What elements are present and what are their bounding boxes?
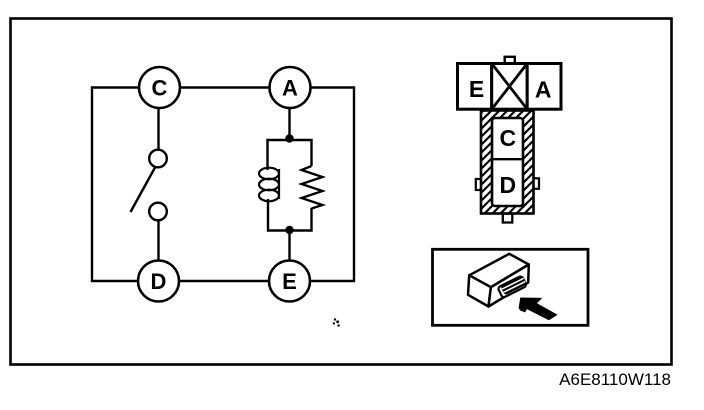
node junction bottom: [285, 226, 293, 234]
connector top tab: [505, 57, 515, 64]
relay body left face: [468, 275, 491, 306]
svg-text:E: E: [282, 269, 297, 294]
relay body top face: [469, 254, 529, 287]
pointer arrow: [519, 298, 558, 321]
pin box A: [527, 64, 561, 110]
connector left tab: [476, 179, 482, 190]
blocked cavity X: [492, 64, 528, 110]
connector cell divider: [492, 158, 523, 160]
node junction top: [285, 134, 293, 142]
resistor R: [302, 166, 323, 209]
svg-text:D: D: [499, 172, 516, 198]
connector bottom tab: [503, 214, 513, 223]
svg-text:E: E: [469, 76, 484, 102]
relay connector grille: [500, 275, 527, 295]
wire bottom D-E: [179, 280, 269, 282]
terminal D: [138, 261, 179, 302]
switch SW (relay contact): [131, 150, 167, 221]
terminal E: [269, 261, 310, 302]
svg-text:A6E8110W118: A6E8110W118: [559, 370, 671, 389]
svg-text:C: C: [152, 75, 168, 100]
wire switch to D: [157, 222, 159, 263]
svg-text:A: A: [282, 75, 298, 100]
wire node2 to E: [288, 231, 290, 263]
wire C to switch: [157, 106, 159, 150]
terminal A: [270, 67, 311, 108]
svg-text:D: D: [151, 269, 167, 294]
svg-text:A: A: [535, 76, 552, 102]
wire left rail C-D loop: [92, 88, 140, 282]
relay connector socket rim: [498, 276, 527, 298]
wire right rail A-E loop: [310, 88, 354, 282]
relay inset box: [433, 249, 589, 325]
svg-text:C: C: [499, 125, 516, 151]
connector inner cavity outline: [492, 118, 523, 206]
connector body (hatched housing): [368, 106, 656, 218]
inductor coil L: [259, 168, 279, 202]
pin box E: [458, 64, 492, 110]
wire A to node1: [288, 106, 290, 140]
relay body right face: [489, 265, 529, 307]
wire parallel block top: [268, 140, 312, 170]
terminal C: [139, 67, 180, 108]
wire parallel block bottom: [268, 199, 312, 231]
connector right tab: [533, 178, 539, 189]
wire top C-A: [181, 86, 270, 88]
